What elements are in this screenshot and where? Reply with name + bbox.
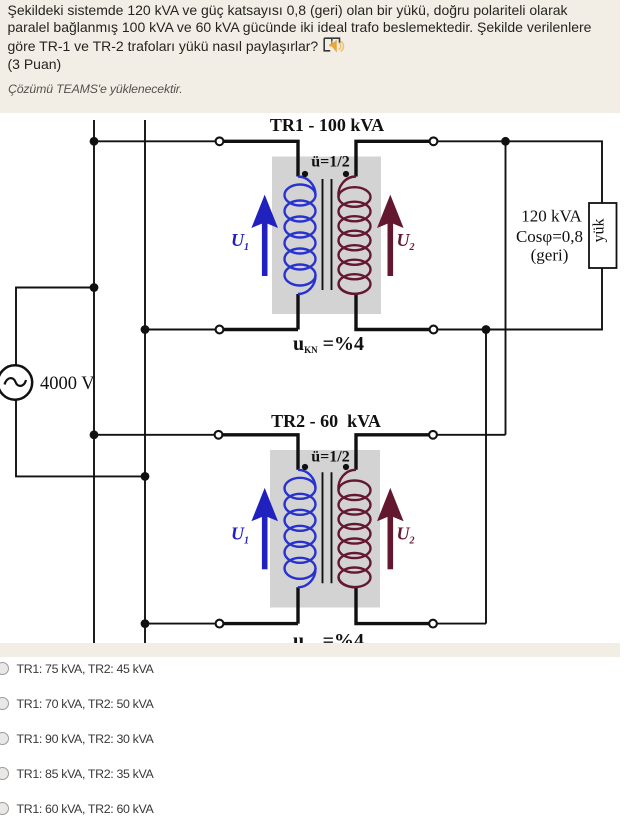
node TR1bottom-tie (482, 325, 491, 334)
options (0, 662, 628, 682)
wire TR1 bottom right thin (438, 268, 603, 330)
svg-text:TR1 - 100 kVA: TR1 - 100 kVA (270, 115, 384, 135)
terminal TR2 bottom right (429, 620, 437, 628)
terminal TR1 top left (216, 137, 224, 145)
winding T2 secondary (maroon coil) (338, 470, 370, 588)
wire TR1 top left thin (94, 140, 216, 142)
winding T1 secondary (maroon coil) (338, 176, 370, 294)
node bus2-TR1bottom (141, 325, 150, 334)
node bus1-source (90, 283, 99, 292)
wire TR2 primary bottom thick (224, 587, 299, 623)
transformer T1 shading (272, 157, 381, 315)
winding T1 primary (blue coil) (285, 177, 316, 295)
wire tie bottom (TR1 bottom to TR2 bottom) (485, 330, 487, 624)
terminal TR2 top left (215, 431, 223, 439)
wire source top lead (16, 288, 94, 366)
node bus1-TR1top (90, 137, 99, 146)
terminal TR1 top right (430, 137, 438, 145)
wire TR1 secondary top thick (356, 141, 430, 176)
source G1 (AC) (0, 365, 32, 399)
polarity dot T1 secondary (343, 171, 349, 177)
terminal TR1 bottom left (216, 326, 224, 334)
polarity dot T1 primary (302, 171, 308, 177)
wire TR1 primary top thick (224, 141, 299, 176)
node bus2-TR2bottom (141, 619, 150, 628)
circuit image (0, 113, 620, 643)
svg-text:ü=1/2: ü=1/2 (311, 449, 349, 466)
wire TR1 bottom left thin (145, 329, 216, 331)
wire TR2 bottom left thin (145, 623, 216, 625)
wire TR2 primary top thick (223, 435, 299, 470)
terminal circles (215, 137, 438, 627)
svg-text:4000 V: 4000 V (40, 374, 95, 394)
wire TR2 secondary top thick (356, 435, 429, 470)
arrow U2 T1 (377, 195, 404, 276)
terminal TR2 bottom left (216, 620, 224, 628)
node bus1-TR2top (90, 430, 99, 439)
wire TR2 secondary bottom thick (356, 587, 429, 623)
node TR1top-tie (501, 137, 510, 146)
wire bus2 vertical (144, 120, 146, 643)
svg-text:Cosφ=0,8: Cosφ=0,8 (516, 227, 583, 246)
node junction dots (90, 137, 510, 628)
core T2 (323, 472, 332, 583)
svg-text:ü=1/2: ü=1/2 (311, 154, 349, 171)
arrow U1 T1 (251, 195, 278, 276)
beige band under image (0, 643, 620, 657)
wire TR1 top right thin (438, 141, 603, 203)
svg-text:120 kVA: 120 kVA (521, 207, 582, 226)
wire source bottom lead (16, 399, 145, 476)
wire bus1 vertical (93, 120, 95, 643)
wire tie top (TR1 top to TR2 top) (505, 141, 507, 435)
wire TR2 bottom right thin (437, 623, 486, 625)
node bus2-source (141, 472, 150, 481)
arrow U1 T2 (251, 488, 278, 569)
wire TR2 top right thin (437, 434, 506, 436)
wire TR2 top left thin (94, 434, 215, 436)
transformer T1 body (285, 171, 371, 294)
polarity dot T2 primary (302, 464, 308, 470)
wire TR1 primary bottom thick (224, 294, 299, 330)
load RL box (589, 203, 617, 268)
terminal TR2 top right (429, 431, 437, 439)
svg-text:uKN =%4: uKN =%4 (293, 630, 364, 643)
svg-text:TR2 - 60 kVA: TR2 - 60 kVA (271, 411, 381, 431)
core T1 (323, 179, 332, 290)
terminal TR1 bottom right (430, 326, 438, 334)
svg-text:uKN =%4: uKN =%4 (293, 333, 364, 355)
question card (0, 0, 620, 113)
svg-text:yük: yük (591, 219, 608, 243)
polarity dot T2 secondary (343, 464, 349, 470)
winding T2 primary (blue coil) (285, 470, 316, 588)
svg-text:(geri): (geri) (531, 246, 569, 265)
transformer T2 shading (270, 450, 380, 608)
wire TR1 secondary bottom thick (356, 294, 430, 330)
arrow U2 T2 (377, 488, 404, 569)
transformer T2 body (285, 464, 371, 587)
